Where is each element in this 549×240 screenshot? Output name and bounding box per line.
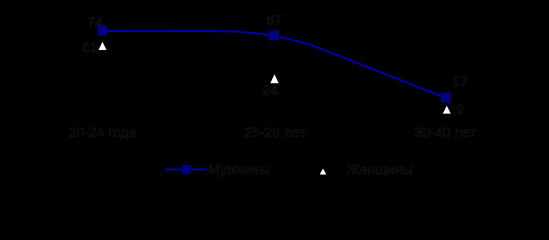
svg-text:9: 9 <box>456 101 464 117</box>
svg-text:25-29 лет: 25-29 лет <box>244 124 306 140</box>
marker square P2 <box>269 31 279 41</box>
marker triangle T1 <box>99 42 107 50</box>
marker triangle T2 <box>270 74 278 83</box>
svg-text:61: 61 <box>82 39 98 55</box>
legend line <box>165 169 207 171</box>
legend triangle <box>320 169 327 175</box>
marker square P1 <box>98 26 108 36</box>
svg-text:74: 74 <box>87 14 103 30</box>
marker square P3 <box>441 93 451 103</box>
svg-text:17: 17 <box>452 73 468 89</box>
svg-text:20-24 года: 20-24 года <box>69 124 137 140</box>
svg-text:30-40 лет: 30-40 лет <box>415 124 477 140</box>
legend square <box>182 165 191 174</box>
svg-text:67: 67 <box>266 12 282 28</box>
svg-text:Мужчины: Мужчины <box>208 161 269 177</box>
marker triangle T3 <box>443 106 451 114</box>
svg-text:24: 24 <box>262 82 278 98</box>
svg-text:Женщины: Женщины <box>347 161 412 177</box>
series line Muzhchiny <box>103 31 447 98</box>
